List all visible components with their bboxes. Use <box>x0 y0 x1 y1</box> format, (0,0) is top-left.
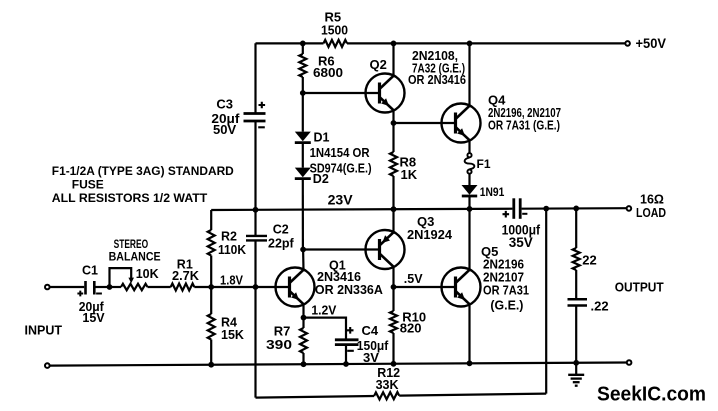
resistor R2 <box>208 230 215 256</box>
resistor R10 <box>390 311 397 333</box>
svg-text:OR 2N3416: OR 2N3416 <box>408 73 466 87</box>
node R12 tap on load rail <box>543 206 549 212</box>
wire Q5 base <box>394 286 456 288</box>
diode 1N91 <box>462 185 478 195</box>
svg-text:R2: R2 <box>221 230 237 244</box>
svg-text:33K: 33K <box>376 378 399 392</box>
node Q2 collector top <box>391 41 397 47</box>
diode D1 <box>295 132 311 142</box>
terminal +50V <box>625 41 630 46</box>
node ground tie on bottom rail <box>573 360 579 366</box>
node Q5 emitter on bottom rail <box>467 360 473 366</box>
wire R2 bottom to node <box>210 256 212 288</box>
wire 23V rail down to C2 <box>254 210 256 236</box>
wire C3 to 23V rail <box>254 121 256 210</box>
capacitor .22 <box>568 298 588 301</box>
svg-text:2.7K: 2.7K <box>172 269 199 283</box>
svg-text:1N4154 OR: 1N4154 OR <box>310 146 370 160</box>
node Q1 collector / Q3 base <box>300 247 306 253</box>
terminal input ground <box>45 363 50 368</box>
wire C4 to bottom rail <box>345 345 347 364</box>
svg-text:D2: D2 <box>313 172 329 186</box>
wire Q1-base node down across bottom rail to R12 rail corner <box>254 287 256 398</box>
capacitor C4 <box>335 338 359 341</box>
resistor R6 <box>299 54 306 77</box>
diode D2 <box>295 168 311 178</box>
resistor R1 <box>171 284 195 291</box>
svg-text:FUSE: FUSE <box>72 177 104 191</box>
wire Q3 collector down <box>392 267 394 287</box>
wire 1N91 to load rail <box>468 196 470 209</box>
fuse F1 <box>467 153 471 157</box>
svg-text:10K: 10K <box>136 267 159 281</box>
wire C2 to Q1 base node <box>254 241 256 288</box>
C4 polarity - <box>347 350 354 352</box>
C1 polarity - <box>96 293 102 295</box>
resistor R12 <box>374 392 399 399</box>
svg-text:15K: 15K <box>221 328 244 342</box>
wire C1 to balance pot <box>94 286 109 288</box>
resistor R4 <box>208 314 215 340</box>
wire Q4 collector <box>468 43 470 105</box>
svg-text:C1: C1 <box>82 264 98 278</box>
svg-text:C3: C3 <box>216 97 233 112</box>
node 22-network top on load rail <box>573 206 579 212</box>
wire 22 to .22 cap <box>575 270 577 299</box>
wire fuse to 1N91 <box>468 174 470 185</box>
svg-text:(G.E.): (G.E.) <box>490 298 523 312</box>
svg-text:110K: 110K <box>218 243 246 257</box>
wire bottom rail <box>50 363 627 366</box>
wire load rail down to R12 rail <box>545 209 547 394</box>
node C2 / Q1 base <box>253 284 259 290</box>
terminal 16-ohm load <box>627 206 632 211</box>
svg-text:2N1924: 2N1924 <box>407 228 452 242</box>
wire R8 top lead <box>392 123 394 152</box>
node R4 on bottom rail <box>208 362 214 368</box>
terminal input signal <box>45 285 50 290</box>
svg-text:50V: 50V <box>213 122 236 137</box>
svg-text:.22: .22 <box>591 299 609 314</box>
svg-text:.5V: .5V <box>404 272 423 286</box>
node Q2 emitter / R8 / Q4 base <box>391 120 397 126</box>
svg-text:390: 390 <box>266 337 292 352</box>
transistor Q2 <box>366 74 405 113</box>
wire Q3 emitter up to rail <box>392 209 394 232</box>
svg-text:820: 820 <box>400 321 422 336</box>
svg-text:C2: C2 <box>273 223 289 237</box>
capacitor 1000uf (series) <box>512 198 515 219</box>
wire R2 top from 23V rail corner <box>210 210 212 230</box>
capacitor C1 <box>84 281 87 295</box>
wire R8 bottom to 23V rail <box>392 176 394 209</box>
node C3 / 23V rail <box>253 207 259 213</box>
node 1.8V junction R2/R4 <box>208 284 214 290</box>
wire R6 bottom to Q2 base node <box>302 77 304 93</box>
svg-text:SeekIC.com: SeekIC.com <box>597 384 706 406</box>
svg-text:BALANCE: BALANCE <box>109 249 161 263</box>
svg-text:1N91: 1N91 <box>480 185 505 199</box>
resistor 22 <box>573 248 580 270</box>
capacitor C3 <box>244 112 266 115</box>
wire 23V rail (left of 1000uf) <box>211 209 512 210</box>
svg-text:16Ω: 16Ω <box>640 193 664 207</box>
wire 1.8V node to Q1 base <box>211 286 289 288</box>
wire Q4 emitter to fuse <box>468 140 470 153</box>
capacitor C2 <box>246 235 267 237</box>
svg-text:1.8V: 1.8V <box>220 273 244 287</box>
node Q1 emitter 1.2V <box>301 315 307 321</box>
C3 polarity - <box>258 126 265 128</box>
transistor Q4 <box>442 104 481 143</box>
svg-text:F1-1/2A (TYPE 3AG) STANDARD: F1-1/2A (TYPE 3AG) STANDARD <box>52 164 234 178</box>
resistor R5 <box>324 40 348 47</box>
svg-text:Q2: Q2 <box>370 57 387 72</box>
svg-text:D1: D1 <box>314 131 330 145</box>
svg-text:OR 2N336A: OR 2N336A <box>315 283 383 297</box>
svg-text:1K: 1K <box>401 167 418 182</box>
node R10 on bottom rail <box>391 361 397 367</box>
wire Q1 emitter down <box>302 304 304 317</box>
C1 polarity + <box>77 291 83 297</box>
wire Q2 base <box>303 92 380 94</box>
node Q3 / R10 / Q5 base (.5V) <box>391 284 397 290</box>
wire R10 top lead <box>392 287 394 311</box>
wire Q1 collector up to node <box>302 250 305 270</box>
svg-text:2N2196: 2N2196 <box>483 257 524 271</box>
wire D1 to D2 <box>302 143 304 168</box>
svg-text:OR 7A31 (G.E.): OR 7A31 (G.E.) <box>488 119 560 133</box>
wire +50V top rail left segment <box>256 42 324 44</box>
svg-text:15V: 15V <box>82 311 105 325</box>
wire .22 to bottom rail <box>575 306 577 363</box>
transistor Q3 (PNP) <box>366 230 405 269</box>
wire input to C1 <box>50 286 85 288</box>
C3 polarity + <box>259 102 266 109</box>
node 1N91 / Q5 collector on rail <box>467 206 473 212</box>
wire R12 rail left segment <box>256 396 375 398</box>
svg-text:ALL RESISTORS 1/2 WATT: ALL RESISTORS 1/2 WATT <box>52 191 208 205</box>
svg-text:F1: F1 <box>477 157 491 171</box>
wire pot to R1 <box>148 286 171 288</box>
wire node to D1 <box>302 93 304 132</box>
node C4 on bottom rail <box>343 361 349 367</box>
wire rail to 22 resistor <box>575 208 577 248</box>
1000uf polarity + <box>503 211 510 218</box>
C4 polarity + <box>347 327 354 334</box>
1000uf polarity - <box>522 213 527 215</box>
wire Q3 base <box>303 248 379 250</box>
resistor R8 <box>390 152 397 176</box>
svg-text:OR 7A31: OR 7A31 <box>483 283 529 297</box>
wire R1 to 1.8V node <box>194 286 211 288</box>
wire +50V top rail right segment <box>347 42 625 44</box>
wire load rail (right of 1000uf) <box>522 207 627 210</box>
svg-text:6800: 6800 <box>313 65 343 80</box>
node R7 on bottom rail <box>301 361 307 367</box>
svg-text:Q3: Q3 <box>417 214 434 229</box>
wire Q2 emitter <box>392 110 394 123</box>
svg-text:INPUT: INPUT <box>25 324 63 338</box>
potentiometer 10K stereo balance <box>110 286 122 288</box>
node R6 / D1 / Q2 base <box>300 90 306 96</box>
svg-text:2N2107: 2N2107 <box>483 270 524 284</box>
wire R10 bottom to bottom rail <box>392 333 394 364</box>
resistor R7 <box>300 328 307 353</box>
wire R6 top lead <box>302 43 304 54</box>
wire Q5 collector up to rail <box>468 209 470 270</box>
svg-text:C4: C4 <box>362 323 379 338</box>
wire Q4 base <box>394 122 456 124</box>
wire Q2 collector <box>392 43 394 75</box>
svg-text:+50V: +50V <box>636 36 667 51</box>
wire 1.2V node to C4 <box>304 318 347 340</box>
svg-text:22pf: 22pf <box>268 236 295 250</box>
svg-text:22: 22 <box>582 253 596 268</box>
node pot left <box>107 284 113 290</box>
wire R7 bottom to bottom rail <box>302 353 304 364</box>
node R8 / Q3 collector on rail <box>391 206 397 212</box>
wire R12 rail right segment <box>399 394 546 396</box>
node R6 top <box>300 41 306 47</box>
svg-text:2N3416: 2N3416 <box>317 270 361 284</box>
svg-text:35V: 35V <box>509 235 533 250</box>
wire top rail corner down to C3 <box>254 43 256 113</box>
wire R7 top lead <box>302 318 304 328</box>
transistor Q5 <box>442 268 481 307</box>
transistor Q1 <box>276 268 315 307</box>
svg-text:1.2V: 1.2V <box>311 303 337 317</box>
svg-text:1500: 1500 <box>321 22 348 37</box>
wire D2 down across 23V rail to Q1 collector node <box>302 179 304 250</box>
ground <box>575 363 577 375</box>
wire R4 bottom to bottom rail <box>210 340 212 365</box>
node Q4 collector top <box>467 41 473 47</box>
wire Q5 emitter to bottom rail <box>468 304 470 363</box>
svg-text:23V: 23V <box>328 193 353 208</box>
svg-text:OUTPUT: OUTPUT <box>615 280 664 294</box>
svg-text:LOAD: LOAD <box>636 206 666 220</box>
wire R4 top <box>210 287 212 314</box>
terminal output ground <box>627 360 632 365</box>
